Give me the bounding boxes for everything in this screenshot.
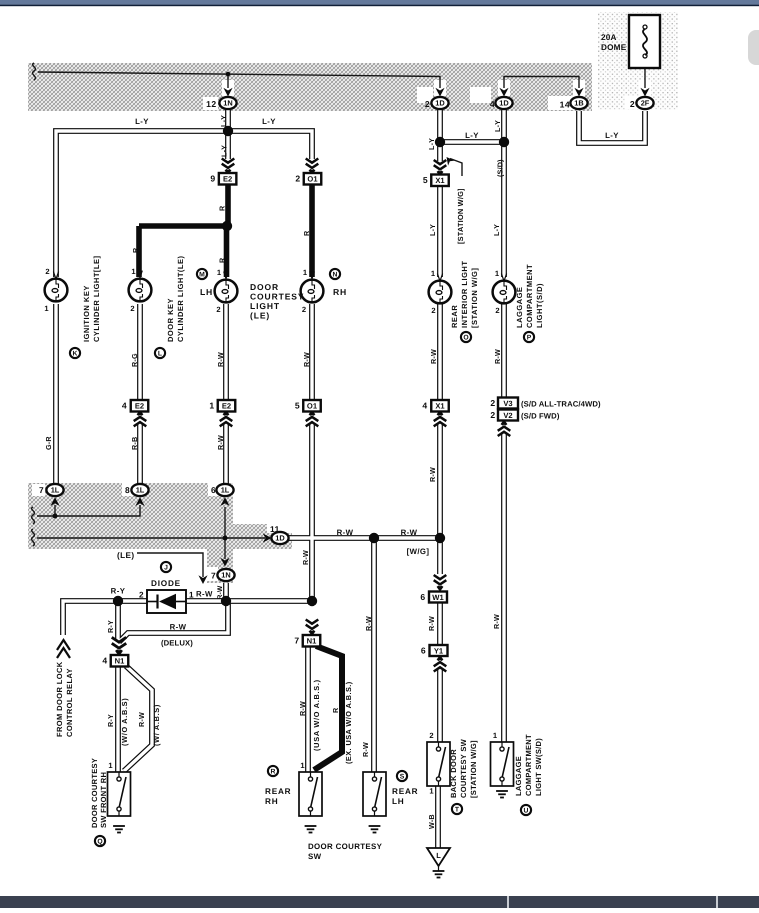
svg-text:L-Y: L-Y xyxy=(605,131,619,140)
svg-text:2: 2 xyxy=(139,591,144,600)
svg-text:R-W: R-W xyxy=(302,352,311,367)
svg-text:(LE): (LE) xyxy=(250,311,270,321)
svg-text:DOOR KEY: DOOR KEY xyxy=(166,298,175,342)
svg-text:R-W: R-W xyxy=(427,616,436,631)
svg-text:[STATION W/G]: [STATION W/G] xyxy=(456,188,465,244)
svg-text:BACK DOOR: BACK DOOR xyxy=(449,749,458,798)
svg-text:R-W: R-W xyxy=(217,585,224,599)
svg-text:1N: 1N xyxy=(221,571,230,580)
svg-text:6: 6 xyxy=(421,646,426,656)
svg-text:R-W: R-W xyxy=(337,528,354,537)
svg-text:W1: W1 xyxy=(432,593,444,602)
svg-text:M: M xyxy=(199,272,205,279)
svg-text:11: 11 xyxy=(270,524,280,534)
svg-text:FROM DOOR LOCK: FROM DOOR LOCK xyxy=(55,661,64,737)
svg-text:R-W: R-W xyxy=(137,712,146,727)
svg-text:Q: Q xyxy=(97,839,102,846)
svg-text:R-W: R-W xyxy=(196,590,213,599)
svg-text:L-Y: L-Y xyxy=(262,117,276,126)
svg-text:R: R xyxy=(331,707,340,713)
svg-text:L-Y: L-Y xyxy=(493,120,502,132)
svg-text:5: 5 xyxy=(295,401,300,411)
svg-text:L-Y: L-Y xyxy=(465,131,479,140)
svg-text:8: 8 xyxy=(125,485,130,495)
svg-text:O: O xyxy=(463,335,468,342)
svg-text:1: 1 xyxy=(189,591,194,600)
svg-text:7: 7 xyxy=(211,571,216,581)
svg-text:12: 12 xyxy=(206,99,216,109)
svg-text:[STATION W/G]: [STATION W/G] xyxy=(470,268,479,328)
svg-text:L-Y: L-Y xyxy=(492,224,501,236)
svg-text:RH: RH xyxy=(333,287,347,297)
svg-text:2: 2 xyxy=(302,305,307,314)
svg-text:G-R: G-R xyxy=(44,436,53,450)
svg-text:1D: 1D xyxy=(435,99,445,108)
svg-text:1: 1 xyxy=(493,731,498,740)
svg-text:R-W: R-W xyxy=(170,623,187,632)
svg-text:2: 2 xyxy=(630,99,635,109)
svg-text:6: 6 xyxy=(420,592,425,602)
svg-text:R-B: R-B xyxy=(130,437,139,450)
svg-text:X1: X1 xyxy=(435,176,445,185)
svg-text:SW: SW xyxy=(308,852,322,861)
svg-text:DIODE: DIODE xyxy=(151,579,181,588)
svg-text:1: 1 xyxy=(431,269,436,278)
svg-text:W-B: W-B xyxy=(427,814,436,829)
svg-text:CYLINDER LIGHT[LE]: CYLINDER LIGHT[LE] xyxy=(92,256,101,343)
svg-text:CONTROL RELAY: CONTROL RELAY xyxy=(65,668,74,737)
svg-text:1: 1 xyxy=(303,268,308,277)
svg-text:1: 1 xyxy=(108,761,113,770)
svg-text:COURTESY SW: COURTESY SW xyxy=(459,738,468,798)
svg-text:2: 2 xyxy=(490,410,495,420)
svg-text:4: 4 xyxy=(102,656,107,666)
svg-text:R-W: R-W xyxy=(364,616,373,631)
svg-text:(S/D FWD): (S/D FWD) xyxy=(521,412,560,421)
svg-text:R-W: R-W xyxy=(298,701,307,716)
svg-text:R-G: R-G xyxy=(130,353,139,367)
svg-text:1: 1 xyxy=(209,401,214,411)
svg-text:DOOR COURTESY: DOOR COURTESY xyxy=(90,758,99,828)
svg-text:1L: 1L xyxy=(221,486,230,495)
svg-text:COMPARTMENT: COMPARTMENT xyxy=(524,734,533,796)
svg-text:LH: LH xyxy=(392,797,405,806)
svg-text:CYLINDER LIGHT(LE): CYLINDER LIGHT(LE) xyxy=(176,256,185,343)
svg-text:R-W: R-W xyxy=(493,349,502,364)
svg-text:N1: N1 xyxy=(115,657,125,666)
svg-text:(USA W/O A.B.S.): (USA W/O A.B.S.) xyxy=(312,679,321,751)
svg-text:INTERIOR LIGHT: INTERIOR LIGHT xyxy=(460,261,469,328)
svg-text:LAGGAGE: LAGGAGE xyxy=(514,756,523,796)
svg-text:1L: 1L xyxy=(51,486,60,495)
svg-text:R-W: R-W xyxy=(216,435,225,450)
svg-text:1: 1 xyxy=(217,268,222,277)
svg-text:2: 2 xyxy=(495,306,500,315)
svg-text:2: 2 xyxy=(429,731,434,740)
svg-text:R-W: R-W xyxy=(301,550,310,565)
svg-text:1B: 1B xyxy=(574,99,583,108)
svg-text:1: 1 xyxy=(495,269,500,278)
svg-text:N: N xyxy=(333,272,338,279)
svg-text:20A: 20A xyxy=(601,33,617,42)
svg-text:DOME: DOME xyxy=(601,43,627,52)
svg-text:1D: 1D xyxy=(499,99,509,108)
svg-text:L-Y: L-Y xyxy=(219,115,228,127)
svg-text:REAR: REAR xyxy=(265,787,291,796)
svg-text:S: S xyxy=(400,774,405,781)
svg-text:[STATION W/G]: [STATION W/G] xyxy=(469,740,478,798)
svg-text:SW FRONT RH: SW FRONT RH xyxy=(99,772,108,828)
svg-text:R-Y: R-Y xyxy=(111,587,126,596)
svg-text:R: R xyxy=(271,769,276,776)
svg-text:L-Y: L-Y xyxy=(427,138,436,150)
svg-text:1: 1 xyxy=(429,787,434,796)
svg-text:(W/O A.B.S): (W/O A.B.S) xyxy=(120,698,129,746)
svg-text:(W/ A.B.S): (W/ A.B.S) xyxy=(152,704,161,746)
svg-text:LAGGAGE: LAGGAGE xyxy=(515,287,524,328)
svg-text:V2: V2 xyxy=(503,411,512,420)
svg-text:COMPARTMENT: COMPARTMENT xyxy=(525,264,534,328)
svg-text:2F: 2F xyxy=(641,99,650,108)
svg-text:R: R xyxy=(218,257,227,263)
svg-text:2: 2 xyxy=(45,267,50,276)
svg-text:R-W: R-W xyxy=(428,467,437,482)
svg-text:V3: V3 xyxy=(503,399,512,408)
svg-text:2: 2 xyxy=(295,174,300,184)
svg-text:L-Y: L-Y xyxy=(220,145,229,157)
svg-text:(DELUX): (DELUX) xyxy=(161,639,193,648)
svg-text:(LE): (LE) xyxy=(117,551,135,560)
svg-text:R-W: R-W xyxy=(401,528,418,537)
svg-text:REAR: REAR xyxy=(392,787,418,796)
svg-text:1: 1 xyxy=(131,267,136,276)
svg-text:4: 4 xyxy=(490,99,495,109)
svg-text:2: 2 xyxy=(130,304,135,313)
svg-text:7: 7 xyxy=(39,485,44,495)
svg-text:1N: 1N xyxy=(223,99,232,108)
svg-text:R-W: R-W xyxy=(492,614,501,629)
svg-text:Y1: Y1 xyxy=(434,646,444,655)
svg-text:LIGHT(S/D): LIGHT(S/D) xyxy=(535,283,544,328)
svg-text:R-W: R-W xyxy=(216,352,225,367)
svg-text:6: 6 xyxy=(211,485,216,495)
svg-text:LH: LH xyxy=(200,287,213,297)
svg-text:N1: N1 xyxy=(307,637,317,646)
svg-text:K: K xyxy=(73,351,78,358)
svg-text:DOOR: DOOR xyxy=(250,282,279,292)
svg-text:L-Y: L-Y xyxy=(135,117,149,126)
svg-text:1D: 1D xyxy=(275,534,285,543)
svg-text:R-Y: R-Y xyxy=(106,620,115,633)
svg-text:9: 9 xyxy=(210,174,215,184)
svg-text:IGNITION KEY: IGNITION KEY xyxy=(82,285,91,342)
svg-text:2: 2 xyxy=(431,306,436,315)
svg-text:5: 5 xyxy=(423,175,428,185)
svg-text:LIGHT: LIGHT xyxy=(250,301,280,311)
svg-text:REAR: REAR xyxy=(450,305,459,328)
svg-text:2: 2 xyxy=(490,398,495,408)
svg-text:E2: E2 xyxy=(135,402,144,411)
svg-text:1L: 1L xyxy=(136,486,145,495)
svg-text:LIGHT SW(S/D): LIGHT SW(S/D) xyxy=(534,738,543,796)
svg-text:COURTESY: COURTESY xyxy=(250,292,304,302)
svg-text:J: J xyxy=(164,565,168,572)
svg-text:O1: O1 xyxy=(307,175,318,184)
svg-text:7: 7 xyxy=(294,636,299,646)
svg-text:1: 1 xyxy=(300,761,305,770)
svg-text:4: 4 xyxy=(422,401,427,411)
svg-text:R: R xyxy=(218,205,227,211)
svg-text:R: R xyxy=(302,230,311,236)
svg-text:R-W: R-W xyxy=(429,349,438,364)
svg-text:P: P xyxy=(527,335,532,342)
svg-text:L: L xyxy=(158,351,162,358)
svg-text:X1: X1 xyxy=(435,402,445,411)
svg-text:L: L xyxy=(436,851,441,860)
svg-text:O1: O1 xyxy=(307,402,318,411)
svg-text:DOOR COURTESY: DOOR COURTESY xyxy=(308,842,383,851)
svg-text:(S/D ALL-TRAC/4WD): (S/D ALL-TRAC/4WD) xyxy=(521,400,601,409)
svg-text:R-W: R-W xyxy=(361,742,370,757)
svg-text:[W/G]: [W/G] xyxy=(407,547,430,556)
svg-text:(EX. USA W/O A.B.S.): (EX. USA W/O A.B.S.) xyxy=(344,681,353,764)
svg-text:14: 14 xyxy=(560,100,570,110)
svg-text:RH: RH xyxy=(265,797,278,806)
svg-text:E2: E2 xyxy=(223,175,232,184)
svg-text:2: 2 xyxy=(216,305,221,314)
svg-text:R-Y: R-Y xyxy=(106,714,115,727)
svg-text:1: 1 xyxy=(44,304,49,313)
svg-text:E2: E2 xyxy=(222,402,231,411)
svg-text:4: 4 xyxy=(122,401,127,411)
svg-text:U: U xyxy=(524,808,529,815)
svg-text:(S/D): (S/D) xyxy=(496,159,505,177)
svg-text:L-Y: L-Y xyxy=(428,224,437,236)
svg-text:2: 2 xyxy=(425,99,430,109)
svg-text:R: R xyxy=(131,247,140,253)
